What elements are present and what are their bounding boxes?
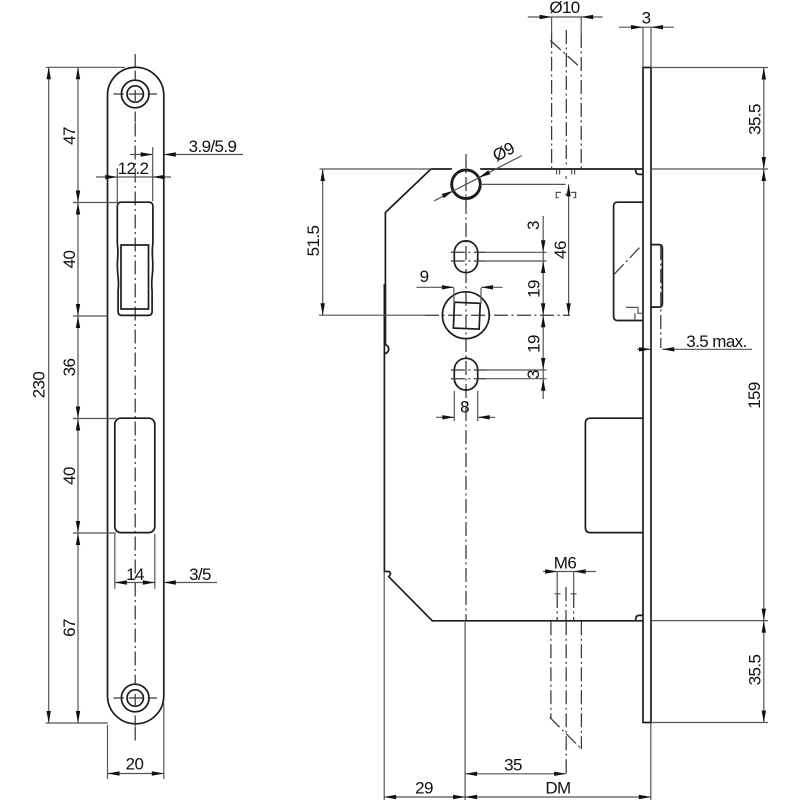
svg-text:19: 19 — [525, 280, 544, 298]
svg-text:20: 20 — [126, 755, 144, 774]
svg-text:19: 19 — [525, 335, 544, 353]
dimension 14 — [115, 534, 155, 589]
faceplate strip — [643, 68, 651, 723]
bottom screw lines below case — [550, 621, 583, 774]
lower cutout — [115, 418, 155, 532]
svg-text:40: 40 — [60, 251, 79, 269]
svg-text:9: 9 — [420, 267, 429, 286]
dimension 230 — [30, 67, 51, 723]
lower slot center mark — [451, 369, 486, 371]
dimension 12.2 — [96, 147, 171, 203]
dimension 3/5 — [164, 565, 217, 585]
case left edge thick segment — [383, 285, 386, 345]
svg-text:29: 29 — [415, 779, 433, 798]
svg-text:3: 3 — [642, 9, 651, 28]
dimension 3.5 max. — [637, 332, 752, 352]
case top edge extension right — [651, 168, 768, 170]
case top tab — [636, 169, 644, 174]
dimension 35.5 bottom — [651, 621, 768, 723]
extension lines left chain — [46, 67, 125, 723]
svg-text:12.2: 12.2 — [118, 159, 149, 178]
case top edge extension to 51.5 — [320, 168, 432, 170]
latch cutout — [117, 202, 153, 315]
dimension 8 (slot) — [436, 391, 495, 421]
faceplate outline — [108, 67, 164, 724]
dimension 46 — [481, 184, 571, 315]
svg-text:67: 67 — [60, 619, 79, 637]
svg-text:47: 47 — [60, 127, 79, 145]
upper slot hole — [454, 241, 477, 273]
lower slot hole — [454, 358, 477, 390]
dimension 35 — [465, 621, 566, 800]
latch inner rect — [121, 245, 149, 309]
svg-text:3.5 max.: 3.5 max. — [686, 332, 746, 351]
svg-text:36: 36 — [60, 359, 79, 377]
latch bolt head — [651, 245, 662, 308]
top screw hole — [114, 71, 158, 123]
spindle hole marks below case edge — [556, 170, 577, 198]
svg-text:230: 230 — [30, 372, 49, 399]
spindle lines above case — [550, 17, 581, 169]
follower circle — [442, 292, 489, 339]
strip extension lines to top 3-dim — [642, 27, 644, 67]
dimension chain 3/19/19/3 — [524, 216, 545, 399]
follower square — [453, 302, 480, 329]
svg-text:35.5: 35.5 — [746, 655, 765, 686]
left chain dimension line — [76, 67, 80, 723]
latch bevel centerline — [614, 246, 642, 275]
upper slot center mark — [451, 251, 486, 253]
case left edge hook — [385, 344, 389, 353]
svg-text:3: 3 — [524, 221, 543, 230]
svg-text:M6: M6 — [554, 554, 577, 573]
svg-text:8: 8 — [460, 398, 469, 417]
dimension 159 — [745, 169, 766, 621]
dimension DM — [465, 723, 651, 800]
svg-text:35: 35 — [504, 756, 522, 775]
svg-text:DM: DM — [545, 779, 570, 798]
dimension Ø10 — [528, 0, 603, 19]
case vertical centerline — [465, 154, 467, 621]
dimension 20 — [108, 703, 164, 779]
deadbolt body — [585, 418, 643, 532]
latch guide hook — [626, 307, 643, 313]
horizontal centerline through follower — [319, 314, 425, 316]
latch bolt body — [614, 202, 643, 320]
svg-text:51.5: 51.5 — [304, 226, 323, 257]
case bottom tab — [636, 615, 644, 620]
cylinder hole Ø9 — [452, 170, 481, 199]
svg-text:159: 159 — [745, 382, 764, 409]
dimension 3 (strip thickness) — [619, 9, 674, 30]
dimension 9 (square) — [417, 267, 503, 304]
dimension 35.5 top — [651, 68, 768, 723]
latch head centerline — [660, 246, 662, 348]
case outline — [384, 169, 643, 621]
svg-text:46: 46 — [551, 241, 570, 259]
bottom screw hole — [114, 675, 158, 727]
svg-text:40: 40 — [60, 467, 79, 485]
dimension 51.5 — [304, 169, 325, 315]
svg-text:14: 14 — [126, 565, 144, 584]
svg-text:Ø10: Ø10 — [549, 0, 579, 17]
svg-text:35.5: 35.5 — [746, 104, 765, 135]
dimension 3.9/5.9 — [130, 137, 243, 157]
Ø9 leader — [434, 139, 522, 201]
svg-text:3.9/5.9: 3.9/5.9 — [189, 137, 237, 156]
svg-text:3/5: 3/5 — [189, 565, 211, 584]
svg-text:3: 3 — [524, 370, 543, 379]
dimension 29 — [384, 572, 465, 800]
dimension M6 — [543, 554, 596, 621]
faceplate centerline — [134, 54, 136, 70]
